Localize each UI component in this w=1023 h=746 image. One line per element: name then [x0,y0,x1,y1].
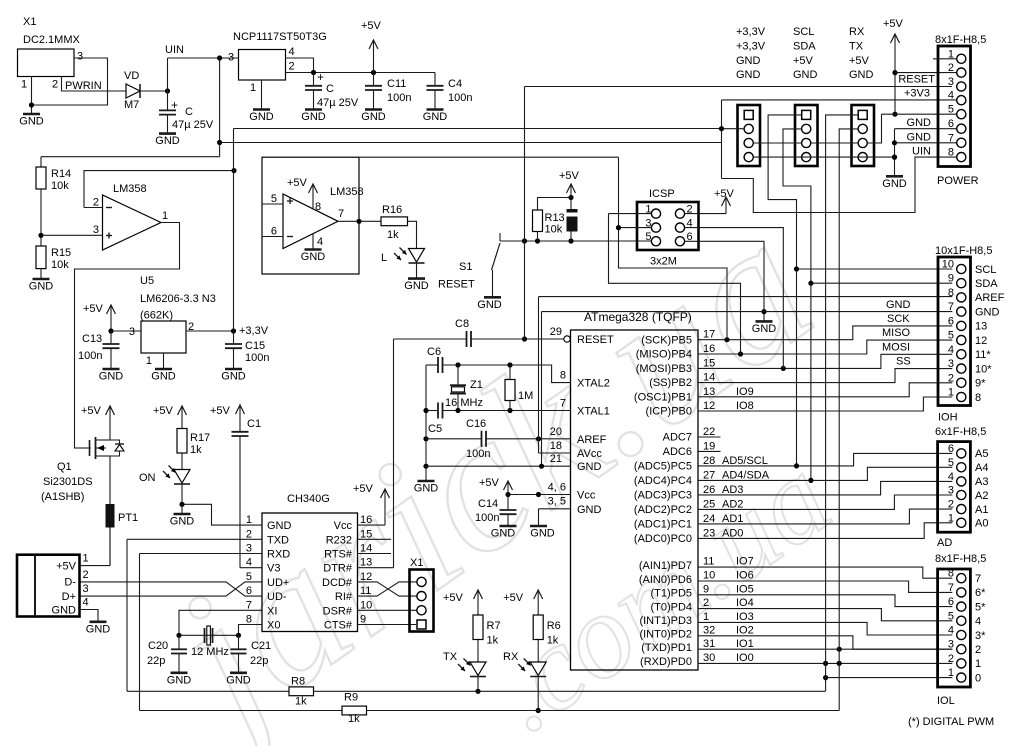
svg-text:A3: A3 [975,476,988,488]
svg-text:12: 12 [975,335,987,347]
svg-text:(A1SHB): (A1SHB) [41,491,84,503]
svg-text:7: 7 [246,599,252,611]
svg-text:(SS)PB2: (SS)PB2 [649,377,692,389]
svg-text:LM358: LM358 [330,186,364,198]
svg-text:ADC6: ADC6 [663,446,692,458]
svg-text:X0: X0 [267,620,280,632]
svg-text:+5V: +5V [849,55,870,67]
svg-text:IO2: IO2 [736,624,754,636]
svg-text:(RXD)PD0: (RXD)PD0 [640,656,692,668]
svg-text:25: 25 [703,498,715,510]
svg-text:28: 28 [703,455,715,467]
svg-text:(ADC5)PC5: (ADC5)PC5 [634,461,692,473]
svg-text:ADC7: ADC7 [663,432,692,444]
svg-text:GND: GND [151,371,176,383]
svg-text:A0: A0 [975,518,988,530]
svg-text:IO8: IO8 [736,400,754,412]
svg-text:AD0: AD0 [722,527,743,539]
svg-text:C1: C1 [247,418,261,430]
svg-text:3: 3 [83,583,89,595]
svg-text:2: 2 [52,79,58,91]
svg-text:R15: R15 [51,247,71,259]
svg-text:11: 11 [360,585,371,597]
svg-text:(SCK)PB5: (SCK)PB5 [641,334,692,346]
svg-text:R14: R14 [51,168,71,180]
svg-text:+5V: +5V [81,405,102,417]
svg-text:6: 6 [948,596,954,608]
svg-text:C14: C14 [478,498,498,510]
svg-text:9: 9 [948,273,954,285]
svg-text:+5V: +5V [479,477,500,489]
svg-text:7: 7 [948,132,954,144]
svg-text:C20: C20 [148,640,168,652]
svg-text:C15: C15 [245,340,265,352]
svg-text:Si2301DS: Si2301DS [43,476,93,488]
svg-text:4, 6: 4, 6 [548,481,566,493]
svg-text:AD5/SCL: AD5/SCL [722,455,768,467]
svg-text:24: 24 [703,513,715,525]
svg-text:C8: C8 [455,318,469,330]
svg-text:GND: GND [86,623,111,635]
svg-text:2: 2 [83,569,89,581]
svg-text:1: 1 [948,667,954,679]
svg-text:VD: VD [124,70,139,82]
svg-text:4: 4 [83,597,89,609]
svg-text:RX: RX [503,651,519,663]
svg-text:1M: 1M [518,390,533,402]
svg-text:1: 1 [162,210,168,222]
svg-text:D+: D+ [62,591,76,603]
svg-text:C11: C11 [387,78,406,90]
svg-text:C21: C21 [251,640,271,652]
svg-text:1k: 1k [547,635,559,647]
svg-text:14: 14 [703,372,715,384]
svg-text:R9: R9 [344,692,358,704]
svg-text:(MOSI)PB3: (MOSI)PB3 [636,363,692,375]
svg-text:4: 4 [948,90,954,102]
svg-text:6: 6 [246,585,252,597]
svg-text:C6: C6 [427,346,441,358]
svg-text:GND: GND [29,281,54,293]
svg-text:3: 3 [948,639,954,651]
svg-text:POWER: POWER [937,175,979,187]
svg-text:3*: 3* [975,630,986,642]
svg-text:GND: GND [752,323,777,335]
svg-text:RTS#: RTS# [324,549,353,561]
svg-text:IO6: IO6 [736,570,754,582]
svg-text:IO4: IO4 [736,597,754,609]
svg-text:7: 7 [975,573,981,585]
svg-text:16: 16 [703,343,715,355]
svg-text:4: 4 [948,625,954,637]
svg-text:RXD: RXD [267,549,290,561]
svg-text:21: 21 [550,453,562,465]
svg-text:LM358: LM358 [113,183,147,195]
svg-text:47µ 25V: 47µ 25V [172,119,214,131]
svg-text:GND: GND [170,516,195,528]
svg-text:Z1: Z1 [470,379,483,391]
svg-text:GND: GND [849,69,874,81]
svg-text:RESET: RESET [438,279,475,291]
svg-text:+5V: +5V [56,560,77,572]
svg-text:12 MHz: 12 MHz [191,646,229,658]
svg-text:13: 13 [360,557,372,569]
svg-text:NCP1117ST50T3G: NCP1117ST50T3G [233,31,327,43]
svg-text:(ICP)PB0: (ICP)PB0 [646,406,692,418]
svg-text:GND: GND [249,111,274,123]
svg-text:DC2.1MMX: DC2.1MMX [23,34,81,46]
svg-text:DTR#: DTR# [323,563,353,575]
svg-text:5: 5 [645,231,651,243]
svg-text:6*: 6* [975,587,986,599]
svg-text:16 MHz: 16 MHz [445,397,483,409]
svg-text:9: 9 [703,583,709,595]
svg-text:2: 2 [948,653,954,665]
svg-text:7: 7 [948,301,954,313]
svg-text:S1: S1 [459,261,472,273]
svg-text:2: 2 [948,499,954,511]
svg-text:(ADC4)PC4: (ADC4)PC4 [634,475,692,487]
svg-text:(INT1)PD3: (INT1)PD3 [639,615,692,627]
svg-text:AD4/SDA: AD4/SDA [722,469,770,481]
svg-text:TX: TX [849,40,864,52]
svg-text:7: 7 [338,208,344,220]
svg-text:(ADC0)PC0: (ADC0)PC0 [634,533,692,545]
svg-text:Vcc: Vcc [334,520,353,532]
svg-text:(*) DIGITAL PWM: (*) DIGITAL PWM [908,716,994,728]
svg-text:8: 8 [948,287,954,299]
svg-text:SS: SS [896,356,911,368]
svg-text:GND: GND [226,674,251,686]
svg-text:8x1F-H8,5: 8x1F-H8,5 [935,34,986,46]
svg-text:8: 8 [560,370,566,382]
svg-text:GND: GND [52,604,77,616]
svg-text:6: 6 [948,315,954,327]
svg-text:R6: R6 [547,620,561,632]
svg-text:+3,3V: +3,3V [239,325,269,337]
svg-text:0: 0 [975,672,981,684]
svg-text:C13: C13 [82,333,102,345]
svg-text:R7: R7 [487,620,501,632]
svg-text:3: 3 [246,543,252,555]
svg-text:+: + [171,98,178,112]
svg-text:(ADC2)PC2: (ADC2)PC2 [634,504,692,516]
svg-text:R17: R17 [190,432,210,444]
svg-text:22p: 22p [147,655,165,667]
svg-text:GND: GND [577,461,602,473]
svg-text:26: 26 [703,484,715,496]
svg-text:GND: GND [19,116,44,128]
svg-text:1: 1 [948,512,954,524]
svg-text:A2: A2 [975,490,988,502]
svg-text:Vcc: Vcc [577,490,596,502]
svg-text:GND: GND [267,520,292,532]
svg-text:GND: GND [99,371,124,383]
svg-text:ICSP: ICSP [649,188,675,200]
svg-text:10k: 10k [51,180,69,192]
svg-text:15: 15 [703,357,715,369]
svg-text:1: 1 [246,514,252,526]
svg-text:PT1: PT1 [118,512,138,524]
svg-text:ON: ON [139,472,156,484]
svg-text:MOSI: MOSI [882,341,910,353]
svg-text:+5V: +5V [559,170,580,182]
svg-text:UIN: UIN [165,44,184,56]
svg-text:XTAL2: XTAL2 [577,378,610,390]
svg-text:100n: 100n [448,92,472,104]
svg-text:IO7: IO7 [736,556,754,568]
svg-text:1: 1 [83,553,89,565]
svg-text:C16: C16 [466,418,486,430]
svg-text:1: 1 [146,355,152,367]
svg-text:GND: GND [793,69,818,81]
svg-text:2: 2 [703,597,709,609]
svg-text:AREF: AREF [975,292,1005,304]
svg-text:GND: GND [414,483,439,495]
svg-text:+3,3V: +3,3V [736,40,766,52]
svg-text:+3,3V: +3,3V [736,26,766,38]
svg-text:GND: GND [907,131,932,143]
svg-text:L: L [381,252,387,264]
svg-text:17: 17 [703,329,715,341]
svg-text:AD3: AD3 [722,484,743,496]
svg-text:1k: 1k [190,444,202,456]
svg-text:AVcc: AVcc [577,448,602,460]
svg-text:20: 20 [550,426,562,438]
svg-text:+5V: +5V [443,592,464,604]
svg-text:3: 3 [948,485,954,497]
svg-text:5: 5 [271,193,277,205]
svg-text:1: 1 [948,387,954,399]
svg-text:+5V: +5V [287,177,308,189]
svg-text:GND: GND [886,299,911,311]
svg-text:TX: TX [443,651,458,663]
svg-text:(T1)PD5: (T1)PD5 [650,588,692,600]
svg-text:CH340G: CH340G [287,493,330,505]
svg-text:IO1: IO1 [736,638,754,650]
svg-text:23: 23 [703,527,715,539]
svg-text:27: 27 [703,469,715,481]
svg-text:6: 6 [948,443,954,455]
svg-text:12: 12 [360,571,372,583]
svg-text:SCL: SCL [793,26,814,38]
svg-text:+5V: +5V [503,592,524,604]
svg-text:+5V: +5V [353,483,374,495]
svg-text:1k: 1k [487,635,499,647]
svg-text:LM6206-3.3 N3: LM6206-3.3 N3 [140,293,216,305]
svg-text:10: 10 [942,259,954,271]
svg-text:GND: GND [882,178,907,190]
svg-text:14: 14 [360,543,372,555]
svg-text:A5: A5 [975,448,988,460]
svg-text:2: 2 [93,197,99,209]
svg-text:SCK: SCK [887,313,910,325]
svg-text:4: 4 [948,344,954,356]
svg-text:8: 8 [948,568,954,580]
svg-text:2: 2 [975,644,981,656]
svg-text:5: 5 [246,571,252,583]
svg-text:PWRIN: PWRIN [65,80,102,92]
svg-text:+5V: +5V [883,18,904,30]
svg-text:13: 13 [703,386,715,398]
svg-text:8: 8 [246,614,252,626]
svg-text:19: 19 [703,440,715,452]
svg-text:(AIN0)PD6: (AIN0)PD6 [639,574,692,586]
svg-text:IOL: IOL [937,695,955,707]
svg-text:5: 5 [948,610,954,622]
svg-text:7: 7 [560,398,566,410]
svg-text:XTAL1: XTAL1 [577,406,610,418]
svg-text:R8: R8 [291,676,305,688]
svg-text:4: 4 [317,236,323,248]
svg-text:22: 22 [703,426,715,438]
svg-text:(OSC1)PB1: (OSC1)PB1 [634,391,692,403]
svg-text:GND: GND [577,504,602,516]
svg-text:6: 6 [271,226,277,238]
svg-text:10k: 10k [545,224,563,236]
svg-text:30: 30 [703,652,715,664]
svg-text:X1: X1 [410,557,423,569]
svg-text:10k: 10k [51,259,69,271]
svg-text:GND: GND [361,111,386,123]
svg-text:SDA: SDA [975,278,998,290]
svg-text:C5: C5 [428,423,442,435]
svg-text:3: 3 [948,76,954,88]
svg-text:13: 13 [975,321,987,333]
svg-text:5: 5 [948,330,954,342]
svg-text:AREF: AREF [577,434,607,446]
svg-text:7: 7 [948,582,954,594]
svg-text:4: 4 [289,46,295,58]
svg-text:47µ 25V: 47µ 25V [317,97,359,109]
svg-text:D-: D- [64,577,76,589]
svg-text:RI#: RI# [335,591,353,603]
svg-text:9*: 9* [975,378,986,390]
svg-text:V3: V3 [267,563,280,575]
svg-text:(TXD)PD1: (TXD)PD1 [641,642,692,654]
svg-text:MISO: MISO [882,327,911,339]
svg-text:AD: AD [937,537,952,549]
svg-text:2: 2 [289,61,295,73]
svg-text:(AIN1)PD7: (AIN1)PD7 [639,560,692,572]
svg-text:DSR#: DSR# [323,605,353,617]
svg-text:(662K): (662K) [140,310,173,322]
svg-text:3: 3 [228,52,234,64]
svg-text:GND: GND [736,69,761,81]
svg-text:R13: R13 [545,212,565,224]
svg-text:UD+: UD+ [267,577,289,589]
svg-text:(ADC3)PC3: (ADC3)PC3 [634,490,692,502]
svg-text:UIN: UIN [912,146,931,158]
svg-text:U5: U5 [140,275,154,287]
svg-text:RX: RX [849,26,865,38]
svg-text:A4: A4 [975,462,988,474]
svg-text:+5V: +5V [793,55,814,67]
svg-text:IO0: IO0 [736,652,754,664]
svg-text:(INT0)PD2: (INT0)PD2 [639,629,692,641]
svg-text:(ADC1)PC1: (ADC1)PC1 [634,519,692,531]
svg-text:16: 16 [360,514,372,526]
svg-text:1k: 1k [295,696,307,708]
svg-text:4: 4 [975,616,981,628]
svg-text:100n: 100n [466,448,490,460]
svg-text:GND: GND [301,251,326,263]
svg-text:GND: GND [736,55,761,67]
svg-text:AD2: AD2 [722,498,743,510]
svg-text:9: 9 [360,614,366,626]
svg-text:4: 4 [948,471,954,483]
svg-text:GND: GND [975,306,1000,318]
svg-text:5: 5 [948,457,954,469]
svg-text:(T0)PD4: (T0)PD4 [650,601,692,613]
svg-text:GND: GND [477,299,502,311]
svg-text:15: 15 [360,528,372,540]
svg-text:XI: XI [267,605,277,617]
svg-text:2: 2 [246,528,252,540]
svg-text:1: 1 [975,658,981,670]
svg-text:1k: 1k [348,713,360,725]
svg-text:4: 4 [246,557,252,569]
svg-text:GND: GND [167,674,192,686]
svg-text:(MISO)PB4: (MISO)PB4 [636,349,692,361]
svg-text:C: C [326,83,334,95]
svg-text:GND: GND [491,528,516,540]
svg-text:SCL: SCL [975,264,996,276]
svg-text:8: 8 [315,201,321,213]
svg-text:GND: GND [155,135,180,147]
svg-text:A1: A1 [975,504,988,516]
svg-text:3: 3 [77,51,83,63]
svg-text:2: 2 [948,62,954,74]
svg-text:+5V: +5V [83,303,104,315]
svg-text:1k: 1k [387,229,399,241]
svg-text:IOH: IOH [938,412,958,424]
svg-text:100n: 100n [245,352,269,364]
svg-text:3, 5: 3, 5 [548,496,566,508]
svg-text:+5V: +5V [210,405,231,417]
svg-text:2: 2 [948,372,954,384]
svg-text:5: 5 [948,104,954,116]
svg-text:3: 3 [129,326,135,338]
svg-text:GND: GND [530,528,555,540]
svg-text:8: 8 [975,392,981,404]
svg-text:8x1F-H8,5: 8x1F-H8,5 [935,553,986,565]
svg-text:RESET: RESET [898,74,935,86]
svg-text:AD1: AD1 [722,513,743,525]
svg-text:12: 12 [703,400,715,412]
svg-text:100n: 100n [78,350,102,362]
svg-text:TXD: TXD [267,534,289,546]
svg-text:+5V: +5V [153,405,174,417]
svg-text:10: 10 [703,570,715,582]
svg-text:8: 8 [948,147,954,159]
svg-text:+5V: +5V [361,20,382,32]
svg-text:3: 3 [948,358,954,370]
svg-text:GND: GND [404,280,429,292]
svg-text:X1: X1 [23,16,36,28]
svg-text:R232: R232 [326,534,352,546]
svg-text:IO9: IO9 [736,386,754,398]
svg-text:SDA: SDA [793,40,816,52]
svg-text:10: 10 [360,599,372,611]
svg-text:M7: M7 [124,99,139,111]
svg-text:11: 11 [703,556,714,568]
svg-text:C: C [185,106,193,118]
svg-text:GND: GND [907,117,932,129]
svg-text:3x2M: 3x2M [650,256,677,268]
svg-text:IO5: IO5 [736,583,754,595]
svg-text:GND: GND [423,111,448,123]
